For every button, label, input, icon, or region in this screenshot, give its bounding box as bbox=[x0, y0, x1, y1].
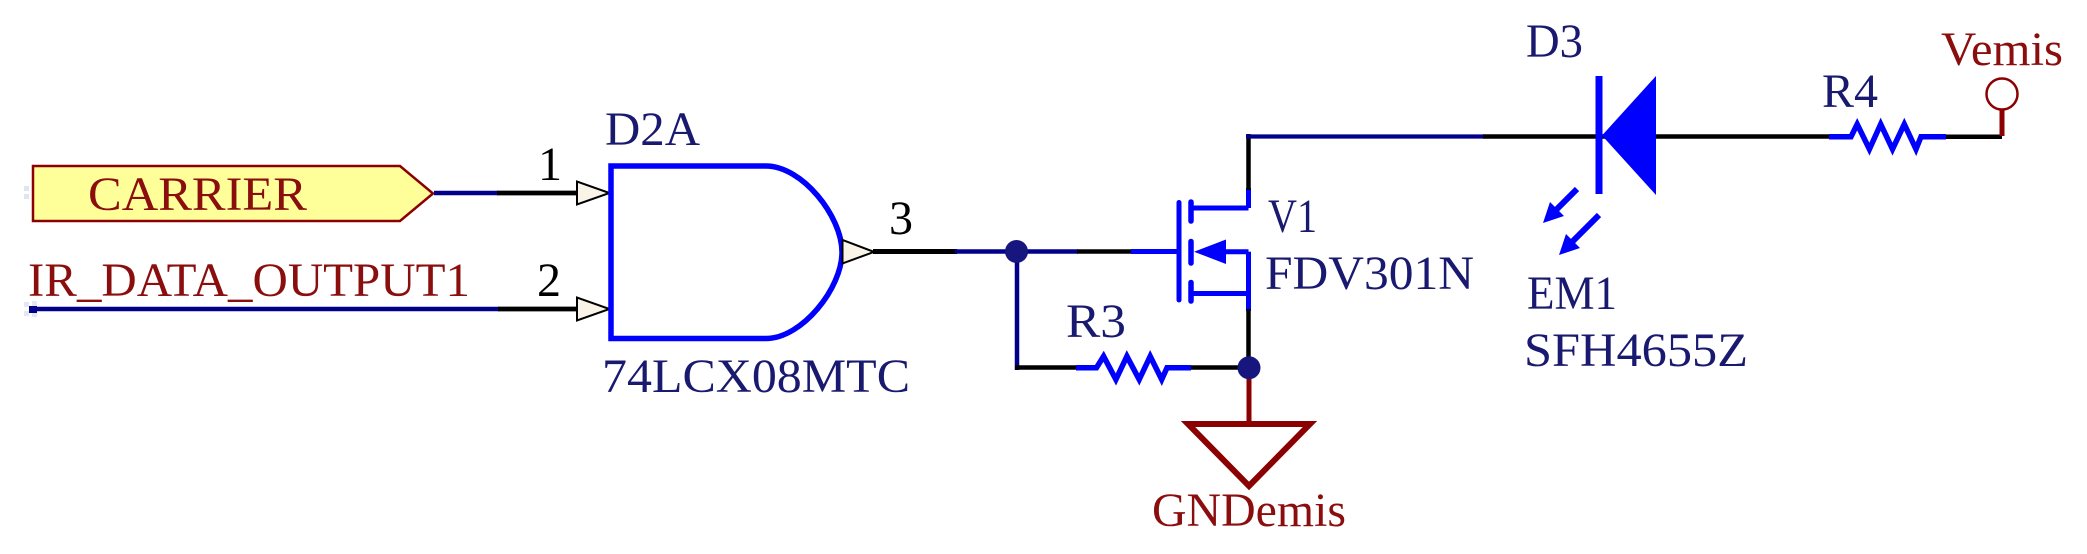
MOSFET body arrow head bbox=[1194, 240, 1226, 265]
wire drain black vertical bbox=[1246, 134, 1251, 190]
wire bottom black segment to R3 bbox=[1015, 365, 1077, 370]
svg-text:CARRIER: CARRIER bbox=[88, 168, 307, 221]
pin 3 output arrow bbox=[843, 240, 875, 264]
body-source vertical bbox=[1246, 252, 1251, 294]
dangling-net marks at flag left bbox=[24, 186, 37, 199]
svg-text:D3: D3 bbox=[1526, 15, 1583, 68]
svg-text:EM1: EM1 bbox=[1527, 267, 1617, 320]
source stub bbox=[1191, 291, 1249, 296]
AND gate U=D2A body bbox=[611, 166, 842, 339]
svg-text:1: 1 bbox=[538, 138, 562, 191]
svg-text:R3: R3 bbox=[1066, 295, 1126, 348]
wire pin1 black segment bbox=[497, 191, 578, 196]
dangling-net marks at IR wire end bbox=[24, 301, 37, 317]
wire to gate black segment bbox=[1077, 249, 1132, 254]
port stem bbox=[2000, 110, 2005, 136]
ground symbol GNDemis triangle bbox=[1188, 424, 1310, 486]
svg-text:74LCX08MTC: 74LCX08MTC bbox=[602, 350, 910, 403]
svg-text:GNDemis: GNDemis bbox=[1152, 484, 1346, 537]
LED D3 triangle bbox=[1602, 76, 1656, 195]
LED emission arrow upper bbox=[1543, 189, 1577, 223]
wire gate output black segment bbox=[873, 249, 957, 254]
svg-text:SFH4655Z: SFH4655Z bbox=[1524, 324, 1748, 377]
svg-text:D2A: D2A bbox=[605, 103, 700, 156]
svg-text:FDV301N: FDV301N bbox=[1265, 247, 1474, 300]
MOSFET V1 symbol bbox=[1179, 188, 1249, 311]
junction node at gate output bbox=[1005, 240, 1028, 263]
wire gate output navy segment bbox=[955, 249, 1078, 254]
gate bar bbox=[1177, 203, 1182, 301]
wire R3 to junction black bbox=[1191, 365, 1252, 370]
LED D3 cathode bar bbox=[1596, 76, 1603, 194]
svg-text:3: 3 bbox=[889, 192, 913, 245]
MOSFET gate pin stub blue bbox=[1131, 249, 1177, 254]
wire top rail black segment to LED and R4 bbox=[1483, 134, 1830, 139]
channel middle segment bbox=[1188, 242, 1194, 264]
wire end nub bbox=[29, 306, 37, 313]
drain pin vertical blue part bbox=[1246, 188, 1251, 208]
wire pin2 navy segment bbox=[30, 307, 499, 312]
net label CARRIER flag bbox=[33, 166, 433, 221]
LED emission arrow lower bbox=[1559, 215, 1599, 255]
port terminal circle Vemis bbox=[1987, 79, 2018, 110]
pin 1 input arrow bbox=[577, 182, 610, 205]
body arrow line bbox=[1224, 249, 1249, 254]
svg-text:IR_DATA_OUTPUT1: IR_DATA_OUTPUT1 bbox=[28, 254, 470, 307]
wire navy vertical from junction down bbox=[1015, 252, 1020, 371]
junction node at MOSFET source bbox=[1238, 356, 1261, 379]
svg-text:R4: R4 bbox=[1822, 65, 1878, 118]
svg-text:Vemis: Vemis bbox=[1941, 23, 2063, 76]
wire R4 to terminal black bbox=[1946, 134, 2002, 139]
drain stub bbox=[1191, 206, 1249, 211]
channel bottom segment bbox=[1188, 283, 1194, 302]
resistor R4 bbox=[1829, 124, 1946, 149]
wire top rail navy segment bbox=[1246, 134, 1484, 138]
svg-text:V1: V1 bbox=[1268, 190, 1317, 243]
wire source black vertical bbox=[1246, 309, 1251, 368]
resistor R3 bbox=[1076, 356, 1191, 379]
wire pin2 black segment bbox=[498, 307, 578, 312]
svg-text:2: 2 bbox=[537, 254, 561, 307]
pin 2 input arrow bbox=[577, 298, 610, 321]
channel top segment bbox=[1188, 202, 1194, 221]
ground stem dark red bbox=[1247, 373, 1252, 424]
wire pin1 navy segment bbox=[434, 191, 498, 196]
source pin vertical blue part bbox=[1246, 294, 1251, 312]
